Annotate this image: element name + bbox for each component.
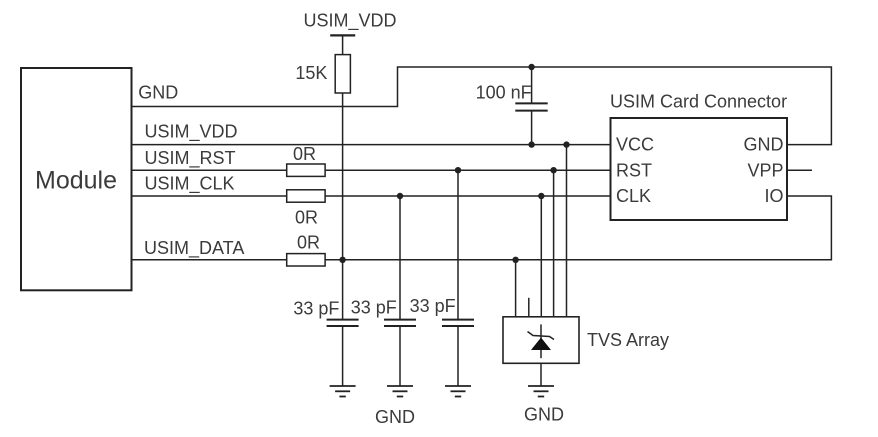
svg-text:33 pF: 33 pF [293,298,339,318]
svg-text:USIM_RST: USIM_RST [145,148,236,169]
svg-text:0R: 0R [297,233,320,253]
svg-text:USIM_DATA: USIM_DATA [144,238,244,259]
svg-text:TVS Array: TVS Array [587,330,669,350]
svg-text:CLK: CLK [616,186,651,206]
svg-text:Module: Module [35,166,117,194]
svg-text:0R: 0R [295,208,318,228]
svg-text:RST: RST [616,161,652,181]
svg-text:USIM Card Connector: USIM Card Connector [610,92,787,112]
svg-text:GND: GND [744,135,784,155]
svg-text:VPP: VPP [747,161,783,181]
svg-text:USIM_CLK: USIM_CLK [145,174,235,195]
svg-text:IO: IO [764,186,783,206]
svg-text:GND: GND [524,405,564,425]
svg-text:33 pF: 33 pF [351,298,397,318]
svg-text:USIM_VDD: USIM_VDD [304,11,397,32]
svg-text:VCC: VCC [616,135,654,155]
svg-text:33 pF: 33 pF [410,296,456,316]
svg-text:0R: 0R [293,144,316,164]
svg-text:15K: 15K [295,63,327,83]
svg-text:GND: GND [138,82,178,102]
svg-text:100 nF: 100 nF [476,82,532,102]
svg-text:USIM_VDD: USIM_VDD [145,122,238,143]
svg-text:GND: GND [375,407,415,427]
